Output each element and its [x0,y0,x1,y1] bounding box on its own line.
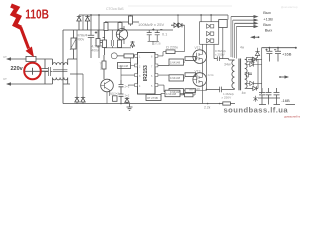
IC U1 IR2153 body [138,53,156,95]
svg-text:Дом.мастер: Дом.мастер [281,5,298,9]
transformer T1 secondary upper [245,59,248,73]
node arrow input top [6,57,11,61]
inductor L1 top winding [53,59,78,65]
ground [127,104,133,111]
resistor R3 [129,16,133,24]
resistor R4b [118,40,122,48]
diode VD10 [248,57,258,61]
transistor Q1 VT2 IRF840 [193,50,207,64]
frame faint top line [128,5,232,7]
capacitor C9 series top [214,56,235,61]
wire input line bottom [7,83,53,85]
diode box D2 1N4148 [169,59,184,65]
wire bridge verticals [70,15,83,96]
diode VD2 bridge [85,15,89,30]
wire fet chain [201,44,203,103]
svg-text:4w: 4w [242,91,247,95]
resistor R2 [118,23,122,31]
bead FB1 [247,57,253,61]
inductor L1 core [53,70,67,72]
svg-text:34w: 34w [224,63,231,67]
svg-text:Вых: Вых [263,22,271,27]
wire top rail y15 [79,14,228,16]
red annotations [11,6,49,80]
zener VD5 [131,41,135,48]
capacitor C1 [42,59,49,84]
svg-text:1N4148: 1N4148 [170,76,181,80]
svg-text:0.1: 0.1 [162,32,167,36]
diode VD3 bridge [75,96,79,104]
svg-text:КТ: КТ [4,77,8,81]
svg-text:ЗГ2В: ЗГ2В [154,42,161,46]
svg-text:СТОка ВкБ: СТОка ВкБ [106,7,125,11]
resistor R6 gate1 [185,57,196,61]
wire out arrow 2 [233,19,257,21]
capacitor C15 [266,88,272,105]
diode box D1 1N4148 left [118,63,131,69]
wire out arrow 1 [231,16,257,18]
svg-text:2=2: 2=2 [125,85,130,89]
IC pins left [135,54,138,57]
resistor R5 [124,54,134,58]
wire out arrow 4 [236,26,256,28]
svg-text:-16В: -16В [281,98,290,103]
svg-text:sound: sound [99,61,103,70]
svg-text:2=2: 2=2 [125,94,130,98]
resistor R9 bottom [185,93,194,97]
svg-text:400v: 400v [92,49,100,53]
box D5 1N4148 bottom [165,90,180,97]
capacitor C6 [155,30,163,42]
wire plus rail [262,47,297,49]
wire bottom rail [63,103,235,105]
transistor Q2 VT3 IRF840 [193,73,207,87]
wire ic left pins [121,58,138,85]
wire mid out arrow [280,76,287,78]
svg-text:100МкФ x 25V: 100МкФ x 25V [138,22,164,27]
svg-text:IR2153: IR2153 [143,65,149,81]
watermark [224,106,309,119]
wire rail y30 [63,29,173,31]
svg-text:VT2: VT2 [195,46,201,50]
svg-text:220к: 220к [208,73,215,77]
wire box feeds [201,15,211,22]
inductor L1 bottom winding [53,78,71,85]
svg-text:1N4148: 1N4148 [166,92,177,96]
transistor VT1 [116,29,127,40]
wire left dc bus [62,30,64,104]
svg-text:220v: 220v [11,66,24,72]
diode VD12 [246,81,262,85]
svg-text:+16В: +16В [282,52,292,57]
diode VD6 VD7 pair [171,23,185,27]
diode circle VD8 [111,53,117,59]
snubber box [219,20,228,28]
svg-text:4w: 4w [240,46,245,50]
capacitor C8 [119,92,124,104]
svg-text:домашний мастер: домашний мастер [284,115,300,119]
transformer T1 primary [232,60,235,89]
wire out vert feeds [231,17,236,59]
wire minus stub marks [259,104,295,106]
resistor R8 [185,89,196,93]
node dots bottom rail [120,103,122,105]
svg-text:IRF840: IRF840 [189,87,200,91]
svg-text:110В: 110В [25,7,49,22]
tiny gray labels [4,7,247,110]
capacitor C2 film [45,67,53,76]
wire y47.8 [104,47,131,49]
svg-text:Вых: Вых [263,10,271,15]
wire minus rail [258,97,280,99]
resistor R220k [166,50,175,54]
component on rail small box [113,96,118,102]
diode box D4 1N4148 [169,89,184,95]
fuse FU1 [26,56,36,61]
resistor R10 series on rail [223,102,231,105]
wire cap bottoms [148,41,159,45]
svg-text:2.2к: 2.2к [204,106,211,110]
lightning arrowhead [26,47,34,58]
svg-text:Ω 220к: Ω 220к [166,46,178,50]
capacitor C10 series bottom [206,87,234,93]
capacitor C14 [259,88,265,105]
IC pins right [155,54,158,57]
capacitor C18 film [111,30,113,48]
wire input line top [7,58,53,60]
diode VD15 to gnd [125,97,129,104]
transformer T1 secondary lower [245,75,248,89]
node arrow input bottom [6,82,11,86]
resistor R4 below rail [103,40,107,48]
driver diode row2 [207,31,214,35]
diode VD13 [248,86,258,90]
capacitor C16 [274,88,280,105]
diode VD1 bridge [77,15,81,30]
transformer T1 core [239,59,241,91]
wire right bus [206,44,214,90]
svg-text:VT3: VT3 [195,69,201,73]
switch SA1 [24,68,45,75]
varistor RV1 [71,38,76,49]
capacitor C4 electrolytic [96,15,105,58]
capacitor sec tap film [246,72,252,77]
wire rail y22 [105,21,139,23]
diode VD4 bridge [81,96,85,104]
capacitor C13 [274,48,281,62]
capacitor C11 [265,48,272,62]
resistor R5a [102,61,106,69]
transistor VT2 small [101,79,114,92]
dark labels [11,10,292,103]
svg-text:КТ: КТ [4,55,8,59]
driver box [200,22,219,45]
wire out arrow left y37 [252,36,259,38]
svg-text:ВД 2=2: ВД 2=2 [110,92,119,96]
svg-text:1N4148: 1N4148 [118,64,128,68]
driver diode row1 [207,24,214,28]
wire out arrow 3 [235,22,257,24]
zener VD14 [255,48,259,58]
capacitor C5 [147,28,155,41]
highlight circle red [24,63,41,80]
svg-text:soundbass.lf.ua: soundbass.lf.ua [224,106,289,115]
capacitor C3 electrolytic [88,15,97,58]
wire sec tap [245,73,252,75]
diode VD11 [246,62,262,66]
svg-text:х 250V: х 250V [222,96,233,100]
resistor R1 [104,23,108,31]
resistor R7 gate2 [185,73,196,77]
driver diode row3 [207,38,214,42]
diode box D3 1N4148 [169,75,184,81]
svg-text:+13В: +13В [263,16,273,21]
resistor R4c [96,39,100,47]
diode VD16 down [251,58,255,63]
lightning bolt red [11,6,21,28]
svg-text:400v: 400v [77,38,85,42]
svg-text:ЗГ 2Г3В: ЗГ 2Г3В [147,96,158,100]
IC pin digits [139,56,153,88]
svg-text:х 250V: х 250V [215,53,226,57]
box feedback below IC [146,95,161,101]
node dots rail15 left [90,14,92,16]
capacitor C7 [119,80,124,92]
wire sec collectors [258,48,262,94]
svg-text:Вых: Вых [265,27,273,32]
diode small bottomright [254,96,258,102]
node dots rail22 [105,21,107,23]
svg-text:1N4148: 1N4148 [170,60,181,64]
